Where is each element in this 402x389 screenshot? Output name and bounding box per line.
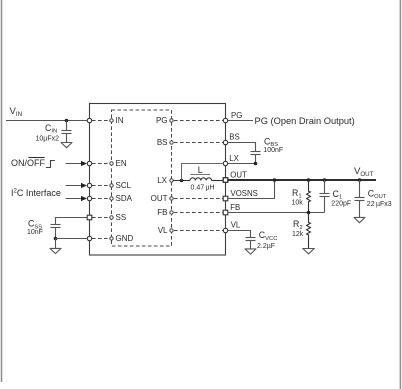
pin SDA (87, 196, 91, 200)
wire BS to CBS (228, 143, 255, 152)
dashed pin link VOSNS (174, 198, 223, 200)
wire inner LX to junction (173, 180, 190, 182)
wire VOSNS up to OUT rail (228, 180, 274, 199)
svg-text:ON/OFF: ON/OFF (11, 158, 45, 168)
dashed pin link SDA (92, 198, 110, 200)
svg-text:EN: EN (116, 159, 127, 168)
svg-text:OUT: OUT (230, 171, 247, 180)
svg-text:10nF: 10nF (27, 229, 43, 236)
inductor L 0.47uH (190, 178, 223, 181)
svg-text:12k: 12k (292, 231, 304, 238)
node FB/R1/R2 junction (307, 211, 311, 215)
pin EN (87, 161, 91, 165)
pin IN (87, 118, 91, 122)
svg-text:PG: PG (231, 111, 242, 120)
svg-text:BS: BS (229, 133, 239, 142)
wire junction to ground (55, 239, 57, 249)
node LX junction (180, 179, 184, 183)
wire EN with arrow (66, 161, 88, 166)
svg-text:VL: VL (158, 226, 168, 235)
svg-text:10µFx2: 10µFx2 (36, 136, 60, 143)
R1 label (292, 188, 304, 207)
dashed pin link BS (174, 142, 223, 144)
pin FB (square) (223, 210, 228, 215)
dashed pin link VL (174, 230, 223, 232)
svg-text:GND: GND (116, 234, 134, 243)
page right border (399, 0, 401, 389)
V_OUT net label (354, 166, 374, 178)
ground (COUT) (354, 217, 365, 222)
svg-text:VOSNS: VOSNS (231, 189, 258, 198)
outer pin labels right side (229, 111, 257, 229)
CBS value label (263, 136, 283, 154)
capacitor COUT (355, 180, 365, 217)
CIN value label (36, 123, 60, 143)
pin SCL (87, 183, 91, 187)
svg-text:FB: FB (230, 203, 240, 212)
svg-text:PG: PG (156, 116, 168, 125)
capacitor C1 (320, 180, 330, 213)
inner pin labels left (116, 116, 134, 243)
dashed pin link GND (92, 238, 110, 240)
pin VL (223, 228, 227, 232)
svg-text:VL: VL (231, 221, 241, 230)
svg-text:BS: BS (157, 138, 168, 147)
svg-text:220pF: 220pF (331, 201, 351, 208)
ON/OFF net label (11, 158, 45, 169)
svg-text:I2C Interface: I2C Interface (11, 188, 61, 198)
svg-text:FB: FB (157, 208, 167, 217)
enable step waveform symbol (46, 161, 55, 168)
svg-text:OUT: OUT (151, 194, 168, 203)
svg-text:SDA: SDA (116, 194, 133, 203)
inner pin ticks left (110, 119, 113, 240)
wire PG out (228, 120, 253, 122)
wire VL to CVCC (228, 231, 250, 238)
dashed pin link SCL (92, 185, 110, 187)
COUT label (367, 189, 392, 209)
wire SDA with arrow (66, 196, 88, 201)
pin BS (223, 140, 227, 144)
svg-text:100nF: 100nF (263, 147, 283, 154)
ground (CIN) (61, 143, 72, 148)
wire SCL with arrow (66, 183, 88, 188)
dashed pin link SS (92, 217, 110, 219)
pin LX (223, 161, 227, 165)
CSS value label (27, 219, 43, 236)
IC inner die dashed box (112, 110, 172, 246)
dashed pin link EN (92, 163, 110, 165)
L label with underline (190, 165, 214, 192)
capacitor CSS (51, 225, 61, 239)
node CBS/LX junction (254, 162, 258, 166)
C1 label (331, 189, 351, 208)
node CIN tap (65, 119, 69, 123)
svg-text:SCL: SCL (116, 181, 132, 190)
capacitor CVCC (246, 238, 256, 249)
svg-text:LX: LX (157, 176, 167, 185)
wire FB row (228, 212, 324, 214)
svg-text:2.2µF: 2.2µF (257, 243, 275, 250)
capacitor CBS (251, 152, 261, 164)
wire SS to CSS (56, 218, 88, 225)
dashed pin link PG (174, 120, 223, 122)
ground (CVCC) (245, 249, 256, 254)
dashed pin link IN (92, 120, 110, 122)
IC module outer box U1 (90, 104, 226, 256)
ground (CSS) (50, 248, 61, 253)
ground (R2) (303, 249, 315, 254)
svg-text:10k: 10k (292, 200, 304, 207)
svg-text:0.47 µH: 0.47 µH (191, 184, 215, 191)
node COUT tap (358, 178, 362, 182)
node C1 top (323, 178, 327, 182)
PG annotation (255, 116, 355, 126)
pin OUT (square) (223, 178, 228, 183)
wire LX out (228, 163, 255, 165)
inner pin labels right (151, 116, 168, 235)
R2 label (292, 219, 304, 238)
I2C Interface label (11, 188, 61, 198)
wire OUT rail (thick) (228, 179, 376, 181)
pin SS (square) (87, 215, 92, 220)
svg-text:LX: LX (229, 154, 239, 163)
wire VIN to IN pin (6, 120, 87, 122)
capacitor CIN (62, 121, 72, 143)
node VOSNS tap (273, 178, 277, 182)
resistor R1 10k (307, 180, 311, 213)
wire GND row (56, 238, 88, 240)
dashed pin link FB (174, 212, 223, 214)
inner pin ticks right (170, 119, 173, 232)
pin GND (87, 236, 91, 240)
V_IN net label (10, 106, 23, 118)
CVCC label (257, 230, 277, 250)
pin PG (223, 118, 227, 122)
node CSS/GND junction (54, 237, 58, 241)
pin VOSNS (square) (223, 196, 228, 201)
svg-text:SS: SS (116, 213, 127, 222)
svg-text:L: L (198, 165, 203, 175)
node R1 top (307, 178, 311, 182)
resistor R2 12k (307, 213, 311, 249)
svg-text:IN: IN (116, 116, 124, 125)
wire LX junction up and to LX pin (182, 164, 223, 181)
page left border (1, 0, 3, 382)
svg-text:22 µFx3: 22 µFx3 (367, 201, 392, 208)
svg-text:PG (Open Drain Output): PG (Open Drain Output) (255, 116, 355, 126)
